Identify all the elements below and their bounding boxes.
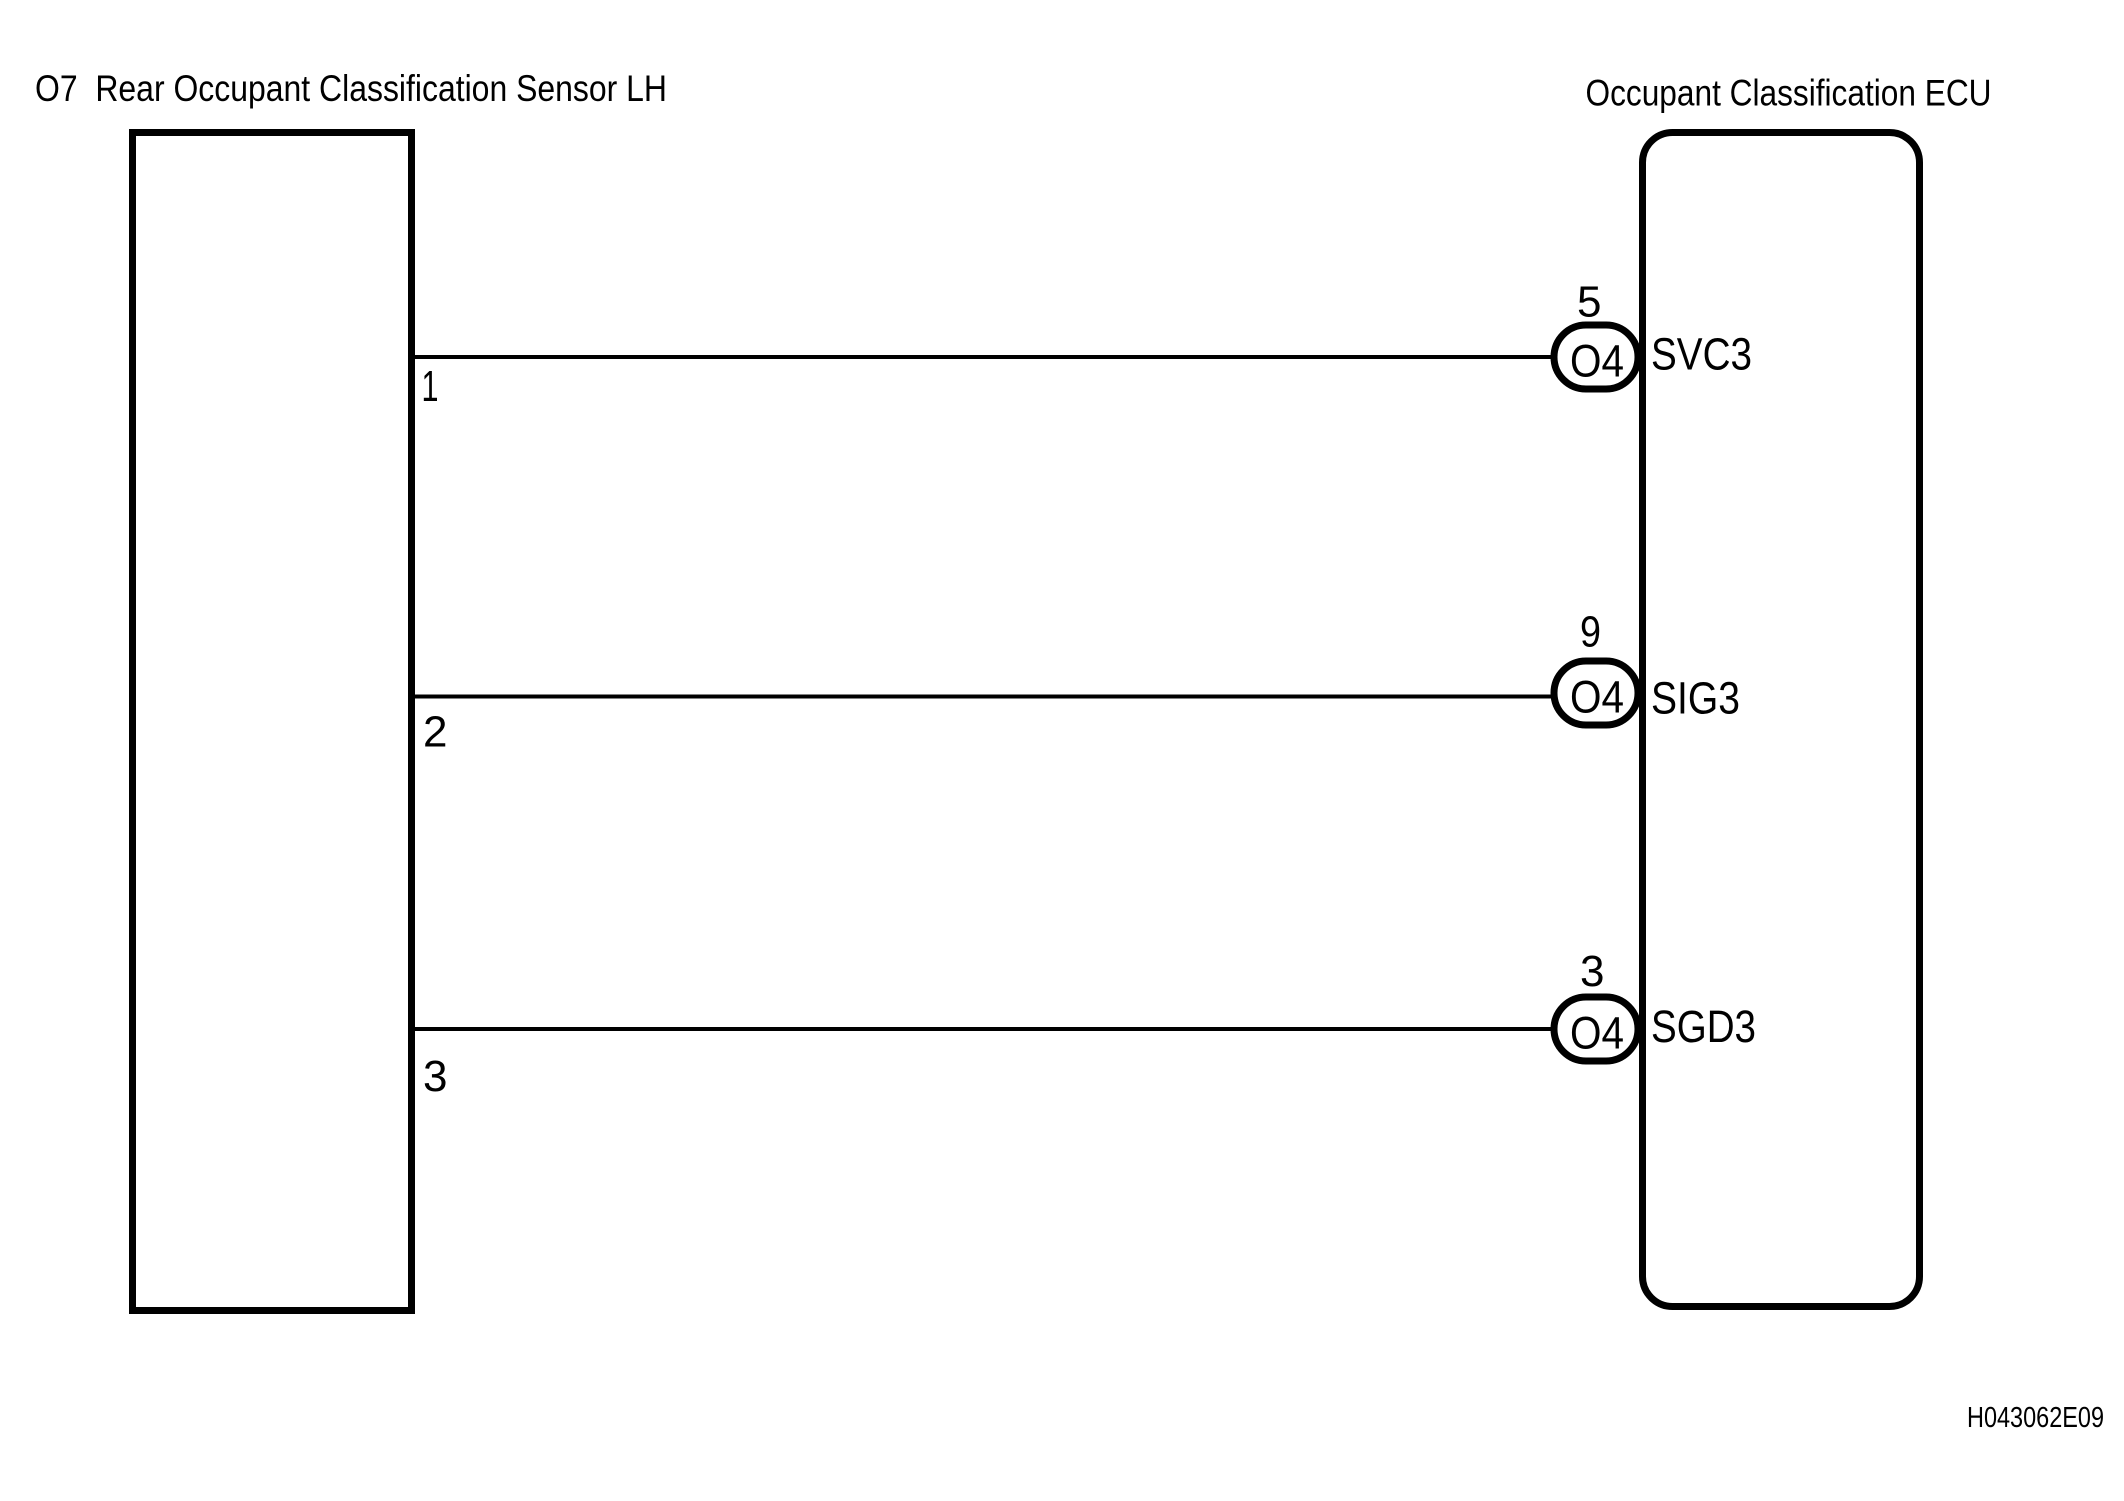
svg-text:O4: O4: [1570, 336, 1624, 387]
terminal oval O4 on wire 1: [1554, 325, 1638, 389]
terminal oval O4 on wire 3: [1554, 997, 1638, 1061]
svg-text:Occupant Classification ECU: Occupant Classification ECU: [1586, 73, 1992, 114]
wire 1: sensor pin 1 to ECU SVC3: [412, 355, 1556, 359]
terminal oval O4 on wire 2: [1554, 661, 1638, 725]
svg-text:9: 9: [1580, 608, 1601, 657]
svg-text:SGD3: SGD3: [1651, 1001, 1756, 1052]
svg-text:SVC3: SVC3: [1651, 328, 1752, 379]
svg-text:O7 Rear Occupant Classificati: O7 Rear Occupant Classification Sensor L…: [35, 68, 667, 109]
svg-text:5: 5: [1577, 278, 1601, 327]
svg-text:1: 1: [422, 362, 439, 411]
svg-text:3: 3: [1580, 947, 1604, 996]
wire 3: sensor pin 3 to ECU SGD3: [412, 1027, 1556, 1031]
svg-text:O4: O4: [1570, 672, 1624, 723]
connector box O7 Rear Occupant Classification Sensor LH: [133, 133, 412, 1311]
wire 2: sensor pin 2 to ECU SIG3: [412, 695, 1556, 699]
svg-text:O4: O4: [1570, 1008, 1624, 1059]
svg-text:SIG3: SIG3: [1651, 673, 1740, 724]
svg-text:3: 3: [423, 1052, 447, 1101]
svg-text:2: 2: [423, 708, 447, 757]
svg-text:H043062E09: H043062E09: [1967, 1402, 2104, 1434]
ECU box: Occupant Classification ECU: [1643, 133, 1920, 1307]
